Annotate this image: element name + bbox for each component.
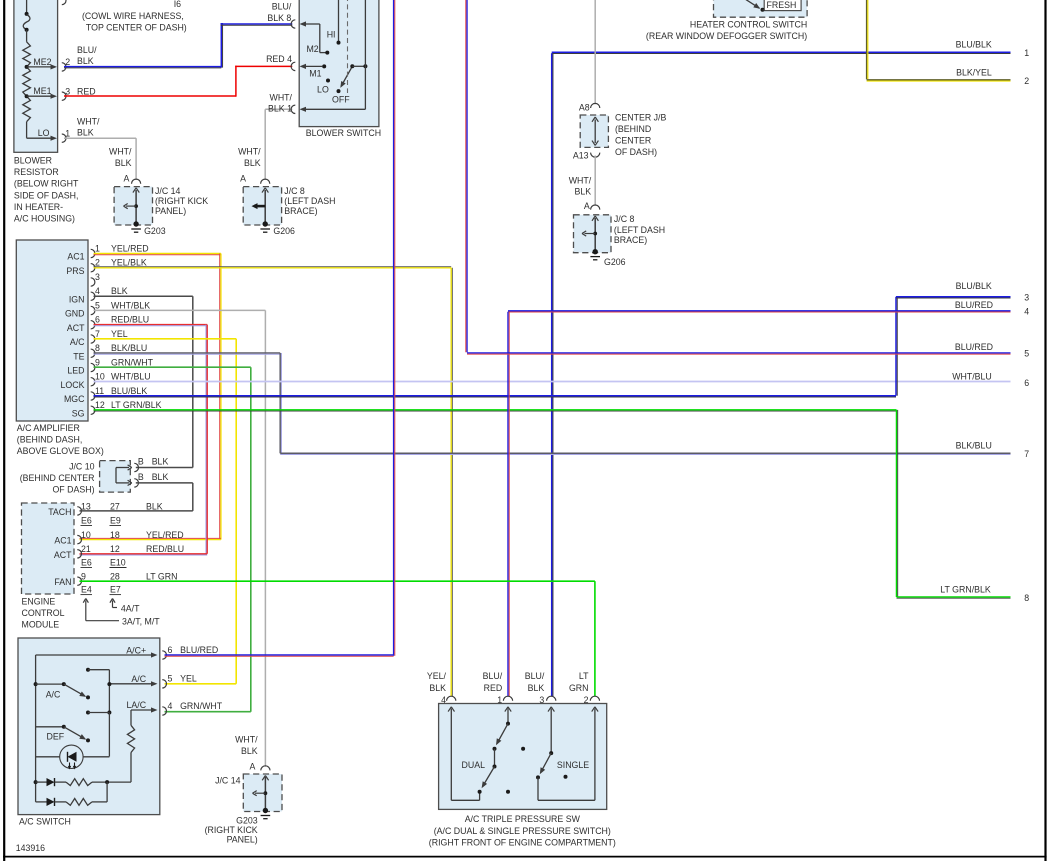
heater control switch (box, cut off) — [714, 0, 808, 17]
wire 4 BLU/RED from pressure switch pin 1 to harness right edge — [508, 300, 1029, 696]
svg-text:18: 18 — [110, 530, 120, 540]
svg-text:BLK: BLK — [77, 128, 94, 138]
blower switch pin 4 entry (M1) — [266, 54, 326, 78]
svg-text:WHT/: WHT/ — [238, 146, 261, 156]
svg-text:RED: RED — [77, 86, 96, 96]
svg-text:13: 13 — [81, 501, 91, 511]
wire YEL/RED amp pin 1 to ECM AC1 — [80, 254, 221, 540]
svg-text:4A/T: 4A/T — [121, 603, 140, 613]
svg-text:OF DASH): OF DASH) — [615, 147, 657, 157]
svg-text:GRN: GRN — [569, 683, 589, 693]
svg-text:M1: M1 — [309, 68, 321, 78]
blower switch mechanical link (dashed) — [347, 0, 349, 93]
blower resistor tap ME2 (pin 2) — [25, 64, 57, 69]
svg-text:BLU/: BLU/ — [272, 1, 292, 11]
svg-text:BLK 1: BLK 1 — [268, 103, 292, 113]
svg-text:BLU/BLK: BLU/BLK — [111, 386, 147, 396]
svg-text:A/C AMPLIFIER: A/C AMPLIFIER — [17, 423, 80, 433]
wire BLU/RED A/C switch pin 6 up to top of page — [165, 0, 395, 656]
svg-text:GRN/WHT: GRN/WHT — [111, 357, 154, 367]
svg-text:I6: I6 — [174, 0, 181, 9]
svg-text:E10: E10 — [110, 557, 126, 567]
Center J/B caption — [615, 112, 666, 157]
svg-text:3: 3 — [1024, 293, 1029, 303]
pressure switch pin 4 internal line — [448, 707, 480, 801]
svg-text:WHT/BLK: WHT/BLK — [111, 300, 150, 310]
ground G206 (center) — [590, 257, 625, 267]
svg-text:A: A — [124, 174, 130, 184]
svg-text:4: 4 — [168, 701, 173, 711]
svg-text:(BEHIND DASH,: (BEHIND DASH, — [17, 435, 83, 445]
blower resistor tap ME1 (pin 3) — [25, 94, 57, 99]
svg-text:J/C 14: J/C 14 — [215, 775, 241, 785]
svg-text:(BELOW RIGHT: (BELOW RIGHT — [14, 179, 79, 189]
svg-text:RED: RED — [484, 683, 503, 693]
svg-text:BLU/: BLU/ — [77, 45, 97, 55]
svg-text:5: 5 — [1024, 348, 1029, 358]
svg-text:(BEHIND CENTER: (BEHIND CENTER — [20, 473, 95, 483]
svg-text:BLK: BLK — [244, 158, 261, 168]
connector A8 / Center J/B (behind center of dash) — [573, 102, 609, 205]
svg-text:MGC: MGC — [64, 394, 85, 404]
blower switch HI contact — [327, 0, 341, 45]
ground G203 (bottom) — [236, 815, 270, 825]
svg-text:GRN/WHT: GRN/WHT — [180, 701, 223, 711]
svg-text:TOP CENTER OF DASH): TOP CENTER OF DASH) — [86, 23, 187, 33]
svg-text:1: 1 — [65, 128, 70, 138]
svg-text:BLOWER: BLOWER — [14, 156, 52, 166]
svg-text:J/C 14: J/C 14 — [155, 186, 181, 196]
junction connector J/C 14 (G203, bottom right kick panel) — [215, 761, 282, 813]
svg-text:BLK: BLK — [528, 683, 545, 693]
pressure switch DUAL contacts — [462, 707, 526, 794]
svg-text:A13: A13 — [573, 150, 589, 160]
svg-text:BLK: BLK — [115, 158, 132, 168]
svg-text:A/C+: A/C+ — [126, 645, 146, 655]
J/C 8 caption (center) — [614, 214, 665, 245]
blower resistor pin arcs and numbers — [62, 57, 71, 142]
svg-text:11: 11 — [95, 386, 104, 396]
svg-text:LED: LED — [67, 366, 84, 376]
svg-text:WHT/: WHT/ — [569, 175, 592, 185]
svg-text:ME1: ME1 — [33, 86, 51, 96]
svg-text:G206: G206 — [604, 257, 626, 267]
svg-text:BLU/: BLU/ — [525, 671, 545, 681]
svg-text:2: 2 — [95, 258, 100, 268]
svg-text:RED 4: RED 4 — [266, 54, 292, 64]
svg-text:E9: E9 — [110, 515, 121, 525]
blower switch pin 8 entry — [267, 1, 329, 54]
svg-text:PRS: PRS — [66, 266, 84, 276]
svg-text:BLU/RED: BLU/RED — [955, 300, 993, 310]
wire 5 BLU/RED from top of page to harness right edge — [466, 0, 1029, 358]
wire WHT/BLK from blower switch pin 1 down to J/C 8 — [238, 109, 292, 180]
svg-text:(RIGHT KICK: (RIGHT KICK — [155, 196, 208, 206]
pressure switch pin 2 internal line — [592, 707, 598, 801]
A/C switch pin A/C (pin 5) — [109, 674, 196, 688]
svg-text:WHT/: WHT/ — [77, 116, 100, 126]
wire BLK amp pin 4 to J/C 10 — [94, 296, 193, 467]
svg-text:ABOVE GLOVE BOX): ABOVE GLOVE BOX) — [17, 446, 104, 456]
svg-text:(RIGHT FRONT OF ENGINE COMPART: (RIGHT FRONT OF ENGINE COMPARTMENT) — [429, 837, 616, 847]
svg-text:BLU/RED: BLU/RED — [955, 342, 993, 352]
svg-text:G203: G203 — [236, 815, 258, 825]
svg-text:1: 1 — [95, 243, 100, 253]
svg-text:BLU/BLK: BLU/BLK — [956, 281, 992, 291]
ECM transmission type arrows (3A/T, M/T and 4A/T) — [83, 599, 160, 627]
svg-text:ACT: ACT — [54, 550, 72, 560]
svg-text:OF DASH): OF DASH) — [52, 484, 94, 494]
svg-text:RED/BLU: RED/BLU — [111, 315, 149, 325]
svg-text:(A/C DUAL & SINGLE PRESSURE SW: (A/C DUAL & SINGLE PRESSURE SWITCH) — [434, 826, 611, 836]
svg-text:DEF: DEF — [47, 731, 65, 741]
svg-text:YEL/RED: YEL/RED — [146, 530, 184, 540]
J/C 14 caption (bottom) — [205, 825, 258, 845]
svg-text:BLU/RED: BLU/RED — [180, 645, 218, 655]
svg-text:MODULE: MODULE — [22, 620, 60, 630]
blower switch (box) — [299, 0, 381, 138]
svg-text:A: A — [584, 201, 590, 211]
svg-text:A/C TRIPLE PRESSURE SW: A/C TRIPLE PRESSURE SW — [465, 814, 581, 824]
pressure switch wire labels (pins 4,1,3,2) — [427, 671, 589, 705]
A/C switch indicator LED — [36, 745, 110, 769]
svg-text:E6: E6 — [81, 515, 92, 525]
ground G203 (top) — [131, 226, 165, 236]
svg-text:WHT/: WHT/ — [270, 92, 293, 102]
svg-text:TE: TE — [73, 351, 84, 361]
blower switch OFF contact and rotor blade — [332, 64, 367, 104]
svg-text:HI: HI — [327, 30, 336, 40]
wire label WHT/BLK above bottom J/C 14 — [235, 735, 258, 756]
svg-text:6: 6 — [1024, 378, 1029, 388]
svg-text:BLK/BLU: BLK/BLU — [111, 343, 147, 353]
svg-text:BLK: BLK — [146, 501, 163, 511]
svg-text:A/C: A/C — [131, 674, 146, 684]
svg-text:YEL: YEL — [111, 329, 128, 339]
svg-text:SIDE OF DASH,: SIDE OF DASH, — [14, 190, 79, 200]
svg-text:BLK: BLK — [429, 683, 446, 693]
junction connector J/C 14 (G203, top) — [114, 174, 152, 227]
wire WHT/BLK from heater control switch down to Center J/B — [569, 0, 595, 196]
blower resistor internal element — [23, 0, 31, 138]
svg-text:8: 8 — [1024, 593, 1029, 603]
wire GRN/WHT amp pin 9 (LED) to A/C switch pin 4 — [94, 367, 251, 712]
wire RED from ME1 pin 3 to blower switch pin 4 — [64, 66, 292, 97]
svg-text:FRESH: FRESH — [767, 0, 797, 10]
svg-text:3: 3 — [65, 86, 70, 96]
A/C switch (box) — [18, 638, 160, 826]
svg-text:10: 10 — [95, 372, 105, 382]
svg-text:21: 21 — [81, 544, 91, 554]
wire BLK J/C 10 to ECM TACH — [80, 483, 193, 511]
wire 2 BLK/YEL to harness right edge — [867, 0, 1030, 86]
svg-text:J/C 8: J/C 8 — [284, 186, 305, 196]
svg-text:YEL/: YEL/ — [427, 671, 447, 681]
wire 6 WHT/BLU amp pin 10 (LOCK) to harness right edge — [94, 371, 1030, 388]
svg-text:YEL: YEL — [180, 674, 197, 684]
svg-text:7: 7 — [1024, 449, 1029, 459]
wire WHT/BLK from LO pin 1 down to J/C 14 — [64, 116, 136, 180]
svg-text:A8: A8 — [579, 102, 590, 112]
svg-text:28: 28 — [110, 572, 120, 582]
svg-text:12: 12 — [110, 544, 120, 554]
wire LT GRN ECM FAN to pressure switch pin 2 — [80, 581, 595, 696]
svg-text:BLK/BLU: BLK/BLU — [956, 441, 992, 451]
wire 3 BLU/BLK amp pin 11 (MGC) to harness right edge — [94, 281, 1030, 397]
svg-text:A: A — [250, 761, 256, 771]
svg-text:2: 2 — [65, 57, 70, 67]
svg-text:DUAL: DUAL — [462, 760, 486, 770]
svg-text:LO: LO — [317, 85, 329, 95]
svg-text:(LEFT DASH: (LEFT DASH — [284, 196, 335, 206]
svg-text:4: 4 — [95, 286, 100, 296]
svg-text:CENTER: CENTER — [615, 135, 651, 145]
svg-text:TACH: TACH — [48, 507, 71, 517]
svg-text:(REAR WINDOW DEFOGGER SWITCH): (REAR WINDOW DEFOGGER SWITCH) — [646, 31, 807, 41]
svg-text:G203: G203 — [144, 226, 166, 236]
svg-text:M2: M2 — [306, 44, 318, 54]
svg-text:OFF: OFF — [332, 95, 350, 105]
J/C 10 caption — [20, 461, 95, 494]
svg-text:WHT/: WHT/ — [235, 735, 258, 745]
connector I6 label (cowl wire harness) — [82, 0, 187, 33]
blower resistor tap LO (pin 1) — [27, 136, 57, 141]
svg-text:(BEHIND: (BEHIND — [615, 124, 651, 134]
svg-text:5: 5 — [168, 674, 173, 684]
engine control module (box) — [22, 503, 82, 594]
wire YEL/BLK amp pin 2 to pressure switch pin 4 — [94, 267, 453, 697]
svg-text:27: 27 — [110, 501, 120, 511]
junction connector J/C 10 (behind center of dash) — [100, 457, 169, 493]
svg-text:BLU/BLK: BLU/BLK — [956, 40, 992, 50]
svg-text:LA/C: LA/C — [127, 700, 147, 710]
blower switch pin 1 entry — [268, 92, 365, 113]
svg-text:FAN: FAN — [54, 577, 71, 587]
svg-text:LO: LO — [38, 128, 50, 138]
svg-text:YEL/BLK: YEL/BLK — [111, 258, 147, 268]
svg-text:WHT/: WHT/ — [109, 146, 132, 156]
svg-text:G206: G206 — [273, 226, 295, 236]
svg-text:12: 12 — [95, 400, 105, 410]
svg-text:E4: E4 — [81, 584, 92, 594]
svg-text:3: 3 — [95, 272, 100, 282]
svg-text:3A/T, M/T: 3A/T, M/T — [122, 616, 160, 626]
svg-text:A/C SWITCH: A/C SWITCH — [19, 816, 71, 826]
svg-text:SINGLE: SINGLE — [557, 760, 589, 770]
A/C triple pressure switch (box) — [439, 696, 607, 809]
svg-text:J/C 8: J/C 8 — [614, 214, 635, 224]
svg-text:(LEFT DASH: (LEFT DASH — [614, 225, 665, 235]
A/C switch LA/C resistor branch — [127, 710, 134, 782]
svg-text:WHT/BLU: WHT/BLU — [952, 371, 992, 381]
A/C switch diode-resistor branch 2 — [36, 782, 108, 806]
svg-text:9: 9 — [95, 357, 100, 367]
svg-text:AC1: AC1 — [67, 252, 84, 262]
svg-text:8: 8 — [95, 343, 100, 353]
A/C switch pin LA/C (pin 4) — [127, 700, 223, 715]
J/C 8 caption (left dash brace) — [284, 186, 335, 216]
svg-text:HEATER CONTROL SWITCH: HEATER CONTROL SWITCH — [690, 19, 807, 29]
svg-text:CONTROL: CONTROL — [22, 608, 65, 618]
J/C 14 caption (right kick panel) — [155, 186, 208, 216]
pressure switch SINGLE contacts — [536, 707, 595, 801]
svg-text:A: A — [240, 174, 246, 184]
A/C switch internal wiring — [34, 655, 112, 802]
junction connector J/C 8 (G206, top) — [240, 174, 281, 227]
svg-text:RED/BLU: RED/BLU — [146, 544, 184, 554]
svg-text:BLK: BLK — [111, 286, 128, 296]
svg-text:BRACE): BRACE) — [614, 235, 647, 245]
svg-text:PANEL): PANEL) — [155, 206, 186, 216]
svg-text:BLOWER SWITCH: BLOWER SWITCH — [306, 128, 381, 138]
svg-text:A/C HOUSING): A/C HOUSING) — [14, 214, 75, 224]
wire 1 BLU/BLK to harness right edge — [552, 40, 1029, 697]
blower resistor top pin arc (cut off) — [62, 0, 66, 5]
svg-text:BLK/YEL: BLK/YEL — [956, 68, 992, 78]
wire RED/BLU amp pin 6 to ECM ACT — [80, 325, 208, 555]
svg-text:B: B — [138, 457, 144, 467]
wire BLK/BLU amp pin 8 (TE) to harness wire 7 — [94, 353, 1030, 459]
svg-text:7: 7 — [95, 329, 100, 339]
wire BLU/BLK from ME2 pin 2 to blower switch pin 8 — [64, 23, 292, 68]
svg-text:PANEL): PANEL) — [227, 835, 258, 845]
svg-text:LT GRN/BLK: LT GRN/BLK — [111, 400, 162, 410]
A/C switch pin A/C+ (pin 6) — [36, 645, 219, 659]
A/C amplifier (box) — [16, 240, 95, 421]
wire 8 LT GRN/BLK amp pin 12 (SG) to harness right edge — [94, 410, 1030, 603]
svg-text:LT GRN/BLK: LT GRN/BLK — [940, 584, 991, 594]
blower switch common feed line — [364, 0, 366, 109]
svg-text:LT: LT — [579, 671, 589, 681]
junction connector J/C 8 (G206, center) — [574, 201, 612, 254]
ground G206 (top) — [260, 226, 295, 236]
svg-text:IGN: IGN — [69, 294, 85, 304]
diagram number 143916 — [16, 843, 45, 853]
svg-text:J/C 10: J/C 10 — [69, 461, 95, 471]
svg-text:LOCK: LOCK — [61, 380, 85, 390]
svg-text:BLK: BLK — [241, 746, 258, 756]
blower switch LO contact — [317, 79, 330, 95]
svg-text:WHT/BLU: WHT/BLU — [111, 372, 151, 382]
svg-text:9: 9 — [81, 572, 86, 582]
svg-text:A/C: A/C — [46, 690, 61, 700]
svg-text:ACT: ACT — [67, 323, 85, 333]
svg-text:5: 5 — [95, 300, 100, 310]
svg-text:BLK 8: BLK 8 — [267, 13, 291, 23]
svg-text:2: 2 — [1024, 76, 1029, 86]
svg-text:E7: E7 — [110, 584, 121, 594]
blower resistor (box) — [14, 0, 58, 152]
ECM pin/terminal labels — [81, 501, 185, 594]
svg-text:BRACE): BRACE) — [284, 206, 317, 216]
svg-text:BLK: BLK — [77, 56, 94, 66]
A/C amplifier caption — [17, 423, 104, 456]
svg-text:E6: E6 — [81, 557, 92, 567]
pressure switch caption — [429, 814, 616, 848]
svg-text:RESISTOR: RESISTOR — [14, 167, 59, 177]
wire WHT/BLK amp pin 5 (GND) to J/C 14 bottom — [94, 310, 266, 766]
heater control switch caption — [646, 19, 807, 40]
svg-text:AC1: AC1 — [54, 536, 71, 546]
svg-text:A/C: A/C — [70, 337, 85, 347]
svg-text:(COWL WIRE HARNESS,: (COWL WIRE HARNESS, — [82, 11, 184, 21]
svg-text:B: B — [138, 472, 144, 482]
svg-text:10: 10 — [81, 530, 91, 540]
blower switch M2 contact label — [306, 44, 318, 54]
wire YEL amp pin 7 to A/C switch pin 5 — [94, 339, 237, 684]
svg-text:GND: GND — [65, 309, 85, 319]
svg-text:SG: SG — [72, 408, 85, 418]
A/C switch diode-resistor branch 1 — [34, 778, 131, 786]
svg-text:YEL/RED: YEL/RED — [111, 243, 149, 253]
svg-text:143916: 143916 — [16, 843, 45, 853]
blower resistor caption — [14, 156, 79, 224]
svg-text:BLK: BLK — [152, 472, 169, 482]
svg-text:IN HEATER-: IN HEATER- — [14, 202, 63, 212]
svg-text:ENGINE: ENGINE — [22, 597, 56, 607]
svg-text:LT GRN: LT GRN — [146, 572, 177, 582]
svg-text:ME2: ME2 — [33, 57, 51, 67]
svg-text:6: 6 — [95, 315, 100, 325]
svg-text:CENTER J/B: CENTER J/B — [615, 112, 666, 122]
svg-text:1: 1 — [1024, 48, 1029, 58]
svg-text:BLK: BLK — [152, 457, 169, 467]
svg-text:6: 6 — [168, 645, 173, 655]
svg-text:BLU/: BLU/ — [483, 671, 503, 681]
svg-text:4: 4 — [1024, 307, 1029, 317]
A/C amplifier pin numbers and wire colour labels — [95, 243, 162, 410]
svg-text:BLK: BLK — [575, 186, 592, 196]
engine control module caption — [22, 597, 65, 630]
svg-text:(RIGHT KICK: (RIGHT KICK — [205, 825, 258, 835]
